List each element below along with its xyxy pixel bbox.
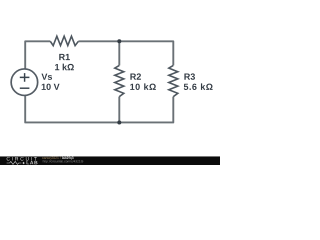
resistor R3 (vertical zigzag) <box>169 65 178 96</box>
label Vs <box>41 74 52 80</box>
wire: R2 bottom down to node B <box>118 97 120 123</box>
label R3 <box>184 73 195 79</box>
value 10 kΩ <box>130 83 156 90</box>
value 1 kΩ <box>55 64 74 71</box>
label R2 <box>130 73 141 79</box>
footer credit line 2 <box>43 160 83 163</box>
label R1 <box>59 54 70 60</box>
node B junction dot (bottom) <box>117 120 121 124</box>
logo text CIRCUIT <box>7 157 37 161</box>
logo arrow mark <box>22 162 24 164</box>
wire: V1 top up to top-left corner, right to R1 left lead <box>25 41 50 69</box>
wire: node A down to R2 top <box>118 41 120 65</box>
footer credit line 1 <box>42 157 61 160</box>
node A junction dot (top) <box>117 39 121 43</box>
value 5.6 kΩ <box>184 83 213 90</box>
logo resistor zigzag <box>7 161 22 164</box>
wire: V1 bottom down, along bottom rail to R3 bottom <box>25 95 173 122</box>
value 10 V <box>42 84 60 90</box>
wire: R1 right lead to node A then R3 top corner, down to R3 top <box>78 41 173 65</box>
resistor R2 (vertical zigzag) <box>115 65 124 96</box>
footer bar <box>0 156 220 165</box>
minus sign <box>20 87 30 89</box>
resistor R1 (horizontal zigzag) <box>50 36 78 45</box>
plus sign <box>20 73 30 82</box>
logo text LAB <box>27 161 38 164</box>
voltage source V1 circle <box>11 69 38 96</box>
